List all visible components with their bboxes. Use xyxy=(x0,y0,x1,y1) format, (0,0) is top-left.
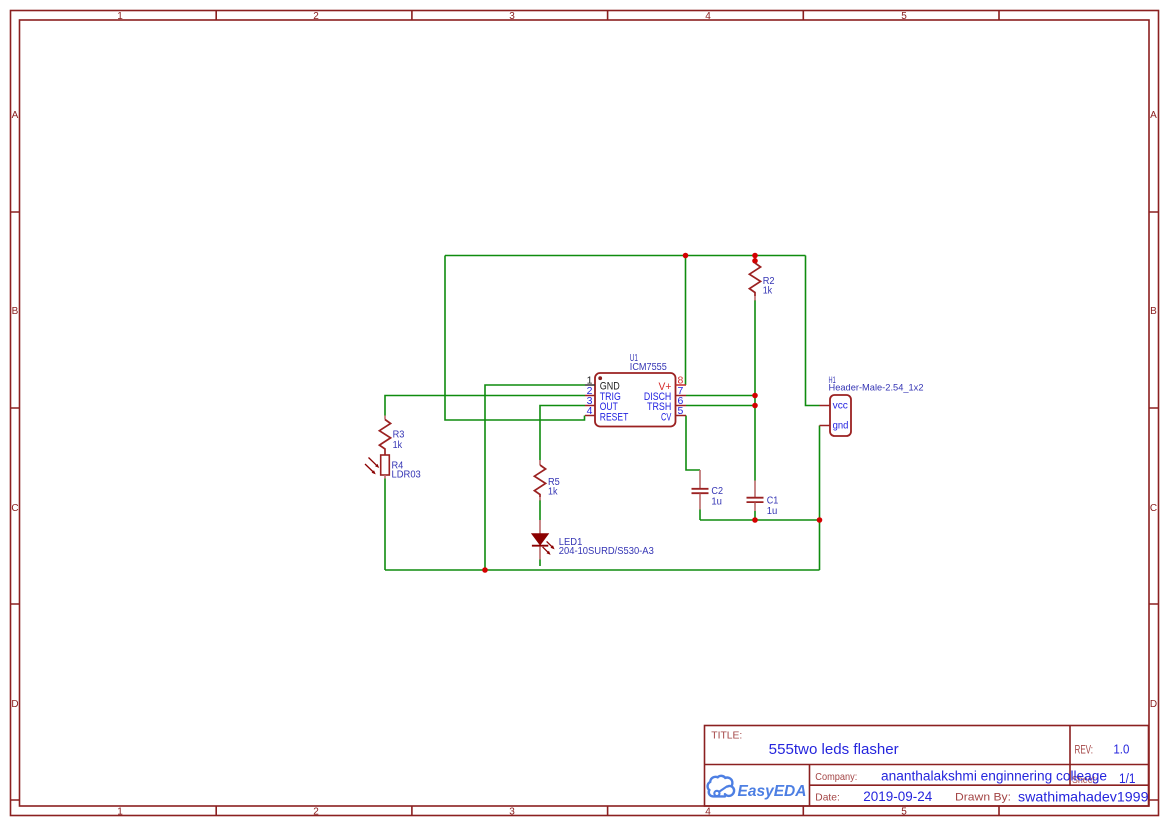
wire: R4 bottom to rail xyxy=(384,479,386,571)
svg-text:gnd: gnd xyxy=(833,420,849,432)
svg-text:B: B xyxy=(1150,306,1157,317)
svg-text:RESET: RESET xyxy=(600,411,629,423)
svg-text:C1: C1 xyxy=(767,495,779,506)
svg-text:5: 5 xyxy=(901,11,907,22)
junction node TRSH xyxy=(752,403,758,409)
svg-text:1: 1 xyxy=(117,11,123,22)
wire: gnd drop from H1 xyxy=(819,426,821,571)
svg-text:4: 4 xyxy=(705,807,711,818)
svg-text:ICM7555: ICM7555 xyxy=(630,362,668,373)
U1 pin 6 TRSH xyxy=(647,395,686,413)
wire: TRSH to node xyxy=(686,405,755,407)
svg-text:4: 4 xyxy=(705,11,711,22)
svg-text:1u: 1u xyxy=(711,496,722,507)
wire: pin8 V+ riser xyxy=(685,256,687,386)
wire: mid gnd rail xyxy=(700,519,820,521)
wire: TRIG net pin2 to R3 top xyxy=(385,396,585,416)
svg-text:A: A xyxy=(1150,110,1157,121)
wire: GND net pin1 to bottom rail xyxy=(485,385,585,570)
capacitor C2 xyxy=(692,470,724,510)
svg-text:A: A xyxy=(12,110,19,121)
U1 pin 1 GND xyxy=(585,375,620,393)
U1 pin 3 OUT xyxy=(585,395,618,413)
svg-text:TITLE:: TITLE: xyxy=(711,731,742,742)
svg-text:1/1: 1/1 xyxy=(1119,771,1136,786)
svg-text:D: D xyxy=(1150,699,1157,710)
wire: C1 bottom xyxy=(754,511,756,520)
U1 pin 4 RESET xyxy=(585,405,629,423)
svg-text:3: 3 xyxy=(509,11,515,22)
svg-text:1k: 1k xyxy=(393,440,403,451)
U1 pin 7 DISCH xyxy=(644,385,686,403)
wire: bottom gnd rail xyxy=(385,569,820,571)
svg-text:1u: 1u xyxy=(767,506,778,517)
wire: R2 top stub xyxy=(754,256,756,264)
svg-text:Date:: Date: xyxy=(815,792,840,804)
U1 pin 8 V+ xyxy=(659,375,687,394)
junction node rail/R2 xyxy=(752,253,758,259)
resistor R5 xyxy=(534,460,560,501)
op-amp U1 ICM7555 body xyxy=(595,353,676,427)
svg-text:204-10SURD/S530-A3: 204-10SURD/S530-A3 xyxy=(559,546,655,557)
wire: LED bottom stub (floating) xyxy=(539,560,541,567)
svg-text:555two leds flasher: 555two leds flasher xyxy=(769,741,899,758)
svg-text:2019-09-24: 2019-09-24 xyxy=(863,789,932,804)
svg-text:LDR03: LDR03 xyxy=(392,470,422,481)
junction node DISCH xyxy=(752,393,758,399)
U1 pin 5 CV xyxy=(661,405,686,423)
svg-text:5: 5 xyxy=(901,807,907,818)
H1 pin vcc xyxy=(820,400,848,412)
wire: R2 bottom to C1 xyxy=(754,300,756,481)
capacitor C1 xyxy=(747,481,779,517)
wire: R5 to LED xyxy=(539,500,541,520)
svg-text:Company:: Company: xyxy=(815,771,857,783)
resistor R3 xyxy=(379,416,405,456)
junction node C1 gnd xyxy=(752,517,758,523)
svg-text:EasyEDA: EasyEDA xyxy=(738,783,807,800)
svg-text:C: C xyxy=(1150,503,1157,514)
svg-text:Drawn By:: Drawn By: xyxy=(955,792,1011,804)
EasyEDA logo xyxy=(708,776,807,800)
svg-text:4: 4 xyxy=(587,405,593,417)
title block xyxy=(705,726,1149,807)
svg-text:swathimahadev1999: swathimahadev1999 xyxy=(1018,789,1149,805)
svg-text:REV:: REV: xyxy=(1075,744,1094,756)
svg-text:5: 5 xyxy=(678,405,684,417)
wire: OUT net pin3 to R5 xyxy=(540,406,585,461)
svg-text:1: 1 xyxy=(117,807,123,818)
resistor R2 xyxy=(749,263,774,301)
svg-text:1k: 1k xyxy=(548,486,558,497)
junction node bottom rail xyxy=(482,567,488,573)
svg-text:D: D xyxy=(11,699,18,710)
svg-text:R3: R3 xyxy=(393,430,405,441)
junction node V+/pin8 xyxy=(683,253,689,259)
svg-text:2: 2 xyxy=(313,807,319,818)
svg-text:CV: CV xyxy=(661,411,672,423)
svg-text:1.0: 1.0 xyxy=(1113,741,1129,756)
photoresistor R4 LDR03 xyxy=(365,455,421,481)
junction node H1 gnd xyxy=(817,517,823,523)
svg-text:3: 3 xyxy=(509,807,515,818)
svg-text:C2: C2 xyxy=(711,486,723,497)
H1 pin gnd xyxy=(820,420,849,432)
svg-text:B: B xyxy=(12,306,19,317)
wire: CV to C2 xyxy=(686,416,700,471)
svg-text:1k: 1k xyxy=(763,286,773,297)
U1 pin 2 TRIG xyxy=(585,385,621,403)
wire: vcc riser to H1 xyxy=(806,256,820,406)
wire: V+ top rail xyxy=(445,255,806,257)
wire: C2 bottom xyxy=(699,510,701,521)
svg-text:C: C xyxy=(11,503,18,514)
LED LED1 xyxy=(532,520,654,560)
wire: DISCH to node xyxy=(686,395,755,397)
wire: RESET net from rail to pin 4 xyxy=(445,256,585,421)
svg-text:2: 2 xyxy=(313,11,319,22)
connector H1 Header-Male-2.54_1x2 xyxy=(829,375,924,436)
svg-text:ananthalakshmi enginnering col: ananthalakshmi enginnering colleage xyxy=(881,769,1107,784)
svg-text:Header-Male-2.54_1x2: Header-Male-2.54_1x2 xyxy=(829,383,924,393)
svg-text:vcc: vcc xyxy=(833,400,848,412)
junction node R2 pin xyxy=(752,258,758,264)
